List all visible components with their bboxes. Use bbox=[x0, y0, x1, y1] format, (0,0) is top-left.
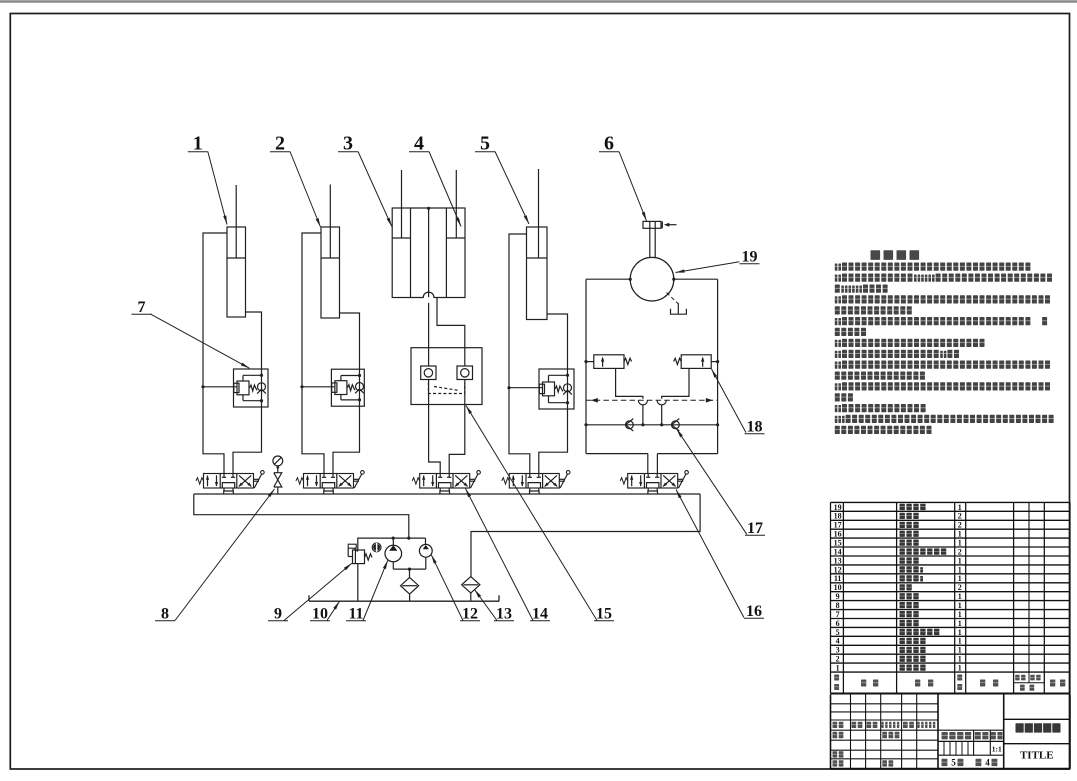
wire: twin cyl center pipe to lock / valve3 bbox=[428, 303, 430, 348]
hydraulic lock internal stubs bbox=[428, 348, 430, 366]
svg-text:1: 1 bbox=[958, 628, 962, 637]
page top rule bbox=[0, 0, 1077, 2]
hydraulic lock right pilot check bbox=[457, 366, 473, 380]
svg-text:13: 13 bbox=[834, 556, 842, 565]
bus bump at valve ports bbox=[648, 491, 658, 494]
wire: bus left end to pump line bbox=[194, 494, 409, 538]
safety valve 9 drain to tank bbox=[357, 564, 359, 602]
pump suction wires bbox=[392, 562, 394, 569]
svg-text:10: 10 bbox=[312, 606, 328, 623]
check valve 17 (right) bbox=[672, 421, 680, 429]
leader/label 13 bbox=[475, 590, 498, 621]
svg-text:9: 9 bbox=[274, 606, 282, 623]
leader/label 5 bbox=[495, 152, 529, 225]
twin cylinder 3 (left barrel) bbox=[392, 208, 410, 298]
leader/label 10 bbox=[327, 601, 340, 620]
wire: cyl5 bottom to balance valve / valve4 bbox=[547, 314, 568, 369]
leader/label 12 bbox=[431, 555, 463, 621]
brake 6 actuating arrow bbox=[661, 221, 663, 228]
motor shaft (double line) bbox=[649, 228, 651, 257]
svg-text:2: 2 bbox=[958, 583, 962, 592]
leader/label 14 bbox=[466, 489, 534, 621]
motor case drain to tank bbox=[667, 293, 679, 304]
svg-text:7: 7 bbox=[138, 299, 146, 316]
svg-text:1: 1 bbox=[958, 565, 962, 574]
svg-text:11: 11 bbox=[834, 574, 842, 583]
svg-text:16: 16 bbox=[746, 603, 762, 620]
wire: twin cyl right pipe to lock / valve3 bbox=[437, 298, 465, 348]
svg-text:3: 3 bbox=[836, 646, 840, 655]
svg-text:1: 1 bbox=[836, 664, 840, 673]
svg-text:5: 5 bbox=[836, 628, 840, 637]
svg-text:6: 6 bbox=[836, 619, 840, 628]
svg-text:9: 9 bbox=[836, 592, 840, 601]
relief valve 18 (left) bbox=[594, 355, 624, 369]
motor circuit box outline / wires bbox=[586, 278, 630, 280]
leader/label 16 bbox=[676, 490, 744, 618]
svg-text:10: 10 bbox=[834, 583, 842, 592]
directional valve 16 (motor/flow divider) bbox=[628, 474, 678, 489]
leader/label 3 bbox=[358, 152, 392, 227]
technical requirements body text bbox=[835, 264, 838, 271]
leader/label 17 bbox=[677, 429, 747, 535]
leader/label 15 bbox=[466, 406, 597, 621]
twin cylinder center body with notch bbox=[411, 207, 447, 209]
leader/label 7 bbox=[150, 314, 249, 369]
wire: cyl5 rod-side to valve4 bbox=[509, 234, 530, 474]
wire: cyl2 rod-side to valve2 bbox=[302, 233, 324, 474]
directional valve 14 (no.1) bbox=[204, 474, 254, 489]
leader/label 2 bbox=[290, 152, 321, 228]
svg-text:15: 15 bbox=[596, 606, 612, 623]
leader/label 4 bbox=[429, 152, 461, 227]
svg-text:7: 7 bbox=[836, 610, 840, 619]
leader/label 8 bbox=[175, 489, 275, 621]
svg-text:2: 2 bbox=[958, 547, 962, 556]
svg-text:1: 1 bbox=[958, 610, 962, 619]
wire: bus right end to return filter bbox=[471, 494, 700, 577]
bus bump at valve ports bbox=[530, 491, 540, 494]
wire: cyl1 bottom to balance valve / valve1 bbox=[246, 312, 262, 369]
svg-text:2: 2 bbox=[958, 512, 962, 521]
rotary motor 19 circle bbox=[630, 257, 674, 301]
svg-text:17: 17 bbox=[747, 520, 763, 537]
svg-text:1: 1 bbox=[958, 646, 962, 655]
gauge flow arrow bbox=[276, 467, 280, 471]
wire: cyl2 bottom to balance valve / valve2 bbox=[340, 313, 360, 369]
relief valve 18 right drain wire bbox=[662, 368, 689, 398]
relief valve 18 left drain wire bbox=[616, 368, 643, 398]
leader/label 11 bbox=[363, 560, 388, 620]
svg-text:2: 2 bbox=[836, 655, 840, 664]
leader/label 1 bbox=[208, 152, 227, 225]
cylinder 2 (telescopic arm) barrel/piston/rod bbox=[321, 227, 340, 318]
pilot line (dashed) with end arrows bbox=[586, 399, 718, 401]
svg-text:18: 18 bbox=[747, 419, 763, 436]
leader/label 6 bbox=[619, 152, 647, 221]
wire: cyl1 rod-side to valve1 bbox=[203, 233, 227, 474]
supply/return bus under valves bbox=[194, 493, 700, 495]
hydraulic pump 11 bbox=[385, 545, 402, 562]
svg-text:1: 1 bbox=[958, 574, 962, 583]
electric motor symbol bbox=[372, 543, 381, 552]
svg-text:4: 4 bbox=[836, 637, 840, 646]
hydraulic lock left pilot check bbox=[421, 366, 436, 380]
return filter 13 bbox=[462, 577, 480, 593]
wire to safety valve 9 bbox=[357, 538, 359, 550]
svg-text:TITLE: TITLE bbox=[1020, 749, 1054, 761]
hydraulic lock pilot cross lines (dashed) bbox=[428, 383, 464, 394]
oil tank 10 bbox=[309, 600, 499, 602]
leader/label 9 bbox=[284, 563, 352, 620]
svg-text:13: 13 bbox=[496, 606, 512, 623]
anti-cavitation line bbox=[586, 424, 718, 426]
twin cylinder center pipe + junction bbox=[428, 208, 430, 297]
brake 6 body bbox=[643, 221, 661, 228]
cylinder 1 (large arm) barrel/piston/rod bbox=[227, 227, 246, 317]
svg-text:17: 17 bbox=[834, 521, 842, 530]
svg-text:1: 1 bbox=[958, 655, 962, 664]
line hops over pilot line bbox=[638, 400, 647, 405]
relief valve 18 (right) bbox=[681, 355, 711, 369]
svg-text:12: 12 bbox=[834, 565, 842, 574]
title block grid bbox=[830, 694, 832, 769]
svg-text:1:1: 1:1 bbox=[992, 745, 1002, 754]
pressure gauge 8 bbox=[273, 456, 283, 466]
svg-text:5: 5 bbox=[951, 758, 956, 768]
title block left grid texts bbox=[833, 722, 838, 728]
check valve 17 (left) bbox=[626, 421, 634, 429]
suction filter bbox=[401, 577, 419, 594]
svg-text:4: 4 bbox=[985, 758, 990, 768]
bus bump at valve ports bbox=[440, 491, 450, 494]
svg-text:18: 18 bbox=[834, 512, 842, 521]
title block middle texts bbox=[942, 732, 948, 739]
directional valve 14 (no.2) bbox=[304, 474, 354, 489]
svg-text:11: 11 bbox=[348, 606, 363, 623]
svg-text:2: 2 bbox=[958, 521, 962, 530]
twin cylinder 4 (right barrel) bbox=[446, 208, 465, 298]
directional valve 14 (no.3) bbox=[420, 474, 470, 489]
BOM header row content bbox=[834, 675, 839, 681]
svg-text:14: 14 bbox=[532, 606, 548, 623]
svg-text:19: 19 bbox=[742, 249, 758, 266]
svg-text:14: 14 bbox=[834, 547, 842, 556]
cylinder 5 (work platform) barrel/piston/rod bbox=[527, 227, 548, 320]
svg-text:1: 1 bbox=[958, 664, 962, 673]
BOM parts table bbox=[831, 501, 1071, 503]
bus bump at valve ports bbox=[224, 491, 234, 494]
leader/label 19 bbox=[676, 262, 740, 273]
svg-text:1: 1 bbox=[958, 601, 962, 610]
svg-text:12: 12 bbox=[462, 606, 478, 623]
svg-text:1: 1 bbox=[958, 530, 962, 539]
balance valve (for cylinder 2) bbox=[331, 369, 364, 406]
balance valve (for cylinder 5) bbox=[539, 369, 574, 409]
svg-text:15: 15 bbox=[834, 539, 842, 548]
gauge shut-off needle valve bbox=[274, 473, 282, 480]
svg-text:1: 1 bbox=[958, 539, 962, 548]
svg-text:1: 1 bbox=[958, 592, 962, 601]
svg-text:19: 19 bbox=[834, 503, 842, 512]
svg-text:1: 1 bbox=[958, 619, 962, 628]
directional valve 14 (no.4) bbox=[509, 474, 559, 489]
drawing title 液压原理图 bbox=[1016, 723, 1024, 732]
leader/label 18 bbox=[712, 369, 747, 433]
svg-text:1: 1 bbox=[958, 556, 962, 565]
svg-text:16: 16 bbox=[834, 530, 842, 539]
pump unit top bus bbox=[357, 537, 425, 539]
technical requirements heading bbox=[871, 250, 881, 260]
svg-text:1: 1 bbox=[958, 503, 962, 512]
hydraulic lock 15 outer box bbox=[411, 348, 482, 405]
balance valve 7 (for cylinder 1) bbox=[234, 369, 269, 407]
wire: valve A/B ports from box bottom bbox=[647, 454, 649, 474]
bus bump at valve ports bbox=[324, 491, 334, 494]
svg-text:1: 1 bbox=[958, 637, 962, 646]
svg-text:8: 8 bbox=[161, 606, 169, 623]
hydraulic pump 12 bbox=[419, 544, 432, 557]
svg-text:8: 8 bbox=[836, 601, 840, 610]
safety valve 9 bbox=[353, 550, 365, 564]
